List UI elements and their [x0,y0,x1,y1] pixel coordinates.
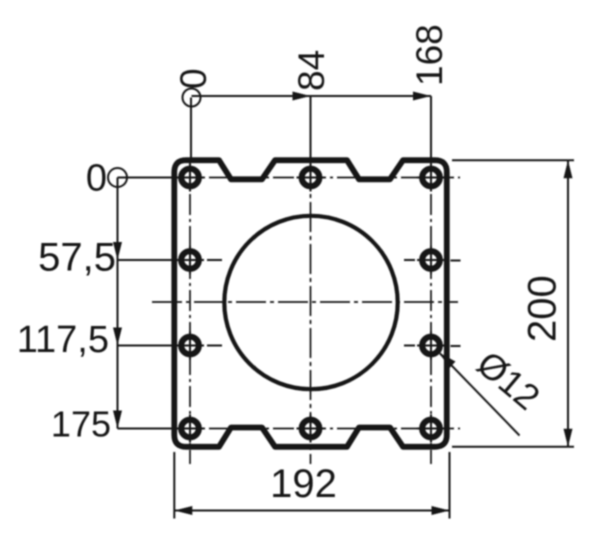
bottom dimension 192: right extension line [449,452,451,519]
svg-text:200: 200 [521,275,565,342]
hole crosshairs row 117.5 [176,332,461,360]
hole crosshairs row 57.5 [176,246,461,274]
right dimension 200: dimension line [567,160,569,447]
hole left 57.5 [181,251,199,269]
extension line x=168 [430,96,432,158]
arrow at 175 [113,411,122,429]
extension line x=0 [190,98,192,159]
hole top-left [181,169,199,187]
svg-text:175: 175 [51,404,111,445]
main horizontal centerline [152,301,458,303]
hole top-middle [302,169,320,187]
right dimension 200: top extension line [452,159,574,161]
svg-text:57,5: 57,5 [38,236,116,280]
leader arrowhead [439,353,456,369]
svg-text:84: 84 [291,50,332,91]
arrow 200 bottom [564,429,573,447]
arrow 200 top [564,160,573,178]
arrow at 117.5 [113,328,122,346]
arrow at 57.5 [113,242,122,260]
arrow 192 right [432,506,450,515]
svg-text:117,5: 117,5 [17,319,109,361]
left ordinate origin circle [108,168,127,187]
hole right 117.5 [422,337,440,355]
central bore circle [224,216,397,389]
row line y=117.5 [118,345,173,347]
svg-text:168: 168 [409,24,450,86]
arrow at 168 [413,92,431,101]
top ordinate origin circle [183,89,201,107]
leader line to hole Ø12 [440,354,520,436]
svg-text:0: 0 [86,158,107,200]
row line y=0 [118,177,173,179]
hole bottom-left [181,420,199,438]
right hole-column centerline [430,162,432,464]
hole crosshairs rows 0 and 175 [176,164,445,443]
row line y=57.5 [118,259,173,261]
hole bottom-right [422,420,440,438]
left ordinate dimension line [117,178,119,429]
bottom dimension 192: left extension line [173,452,175,519]
hole top-right [422,169,440,187]
hole right 57.5 [422,251,440,269]
bottom dimension 192: dimension line [174,510,449,512]
main vertical centerline [310,160,312,464]
arrow at 84 [293,92,311,101]
plate outline with notched top and bottom edges [174,160,447,447]
extension line x=84 [310,96,312,158]
arrow 192 left [174,506,192,515]
hole bottom-middle [302,420,320,438]
hole left 117.5 [181,337,199,355]
svg-text:192: 192 [270,462,337,506]
left hole-column centerline [189,162,191,464]
top ordinate dimension line [192,95,432,97]
top hole-row centerline [177,177,460,179]
bottom hole-row centerline [177,428,460,430]
svg-text:0: 0 [173,68,214,89]
row line y=175 [118,428,173,430]
right dimension 200: bottom extension line [452,446,574,448]
